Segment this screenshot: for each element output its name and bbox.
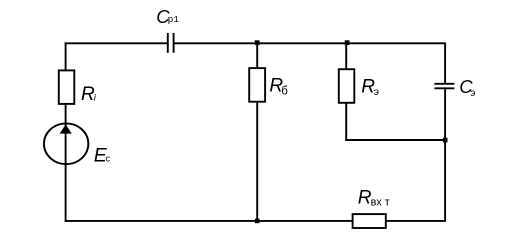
node junction right: [443, 138, 448, 143]
svg-text:э: э: [374, 86, 379, 98]
source Ec arrow: [60, 124, 72, 133]
node junction top Re: [345, 40, 350, 45]
wire right vertical lower: [444, 89, 446, 222]
wire left vertical: [65, 42, 67, 221]
label R_vx: [358, 187, 390, 208]
wire top left segment: [65, 42, 167, 44]
label C_p1: [156, 6, 179, 27]
svg-text:c: c: [106, 153, 111, 163]
svg-text:б: б: [281, 86, 288, 98]
label C_e: [459, 76, 475, 99]
svg-text:p1: p1: [168, 14, 180, 25]
label R_b: [269, 76, 288, 98]
wire right vertical upper: [444, 42, 446, 83]
resistor Ri: [59, 70, 75, 104]
node junction top middle: [255, 40, 260, 45]
label R_e: [361, 77, 379, 98]
capacitor C_p1: [168, 33, 174, 53]
resistor Rvx: [353, 214, 386, 228]
wire top right segment: [174, 42, 445, 44]
wire Re loop bottom: [345, 139, 445, 141]
wire bottom left segment: [65, 220, 353, 222]
source Ec circle: [44, 123, 88, 164]
capacitor Ce: [434, 84, 454, 89]
node junction bottom middle: [255, 219, 260, 224]
svg-text:э: э: [470, 88, 475, 99]
wire bottom right segment: [386, 220, 446, 222]
label E_c: [94, 145, 111, 167]
wire Re vertical: [345, 43, 347, 141]
resistor Rb: [249, 68, 265, 102]
wire middle vertical: [256, 42, 258, 221]
resistor Re: [339, 69, 355, 103]
svg-text:вх т: вх т: [371, 196, 390, 208]
label R_i: [81, 84, 97, 105]
